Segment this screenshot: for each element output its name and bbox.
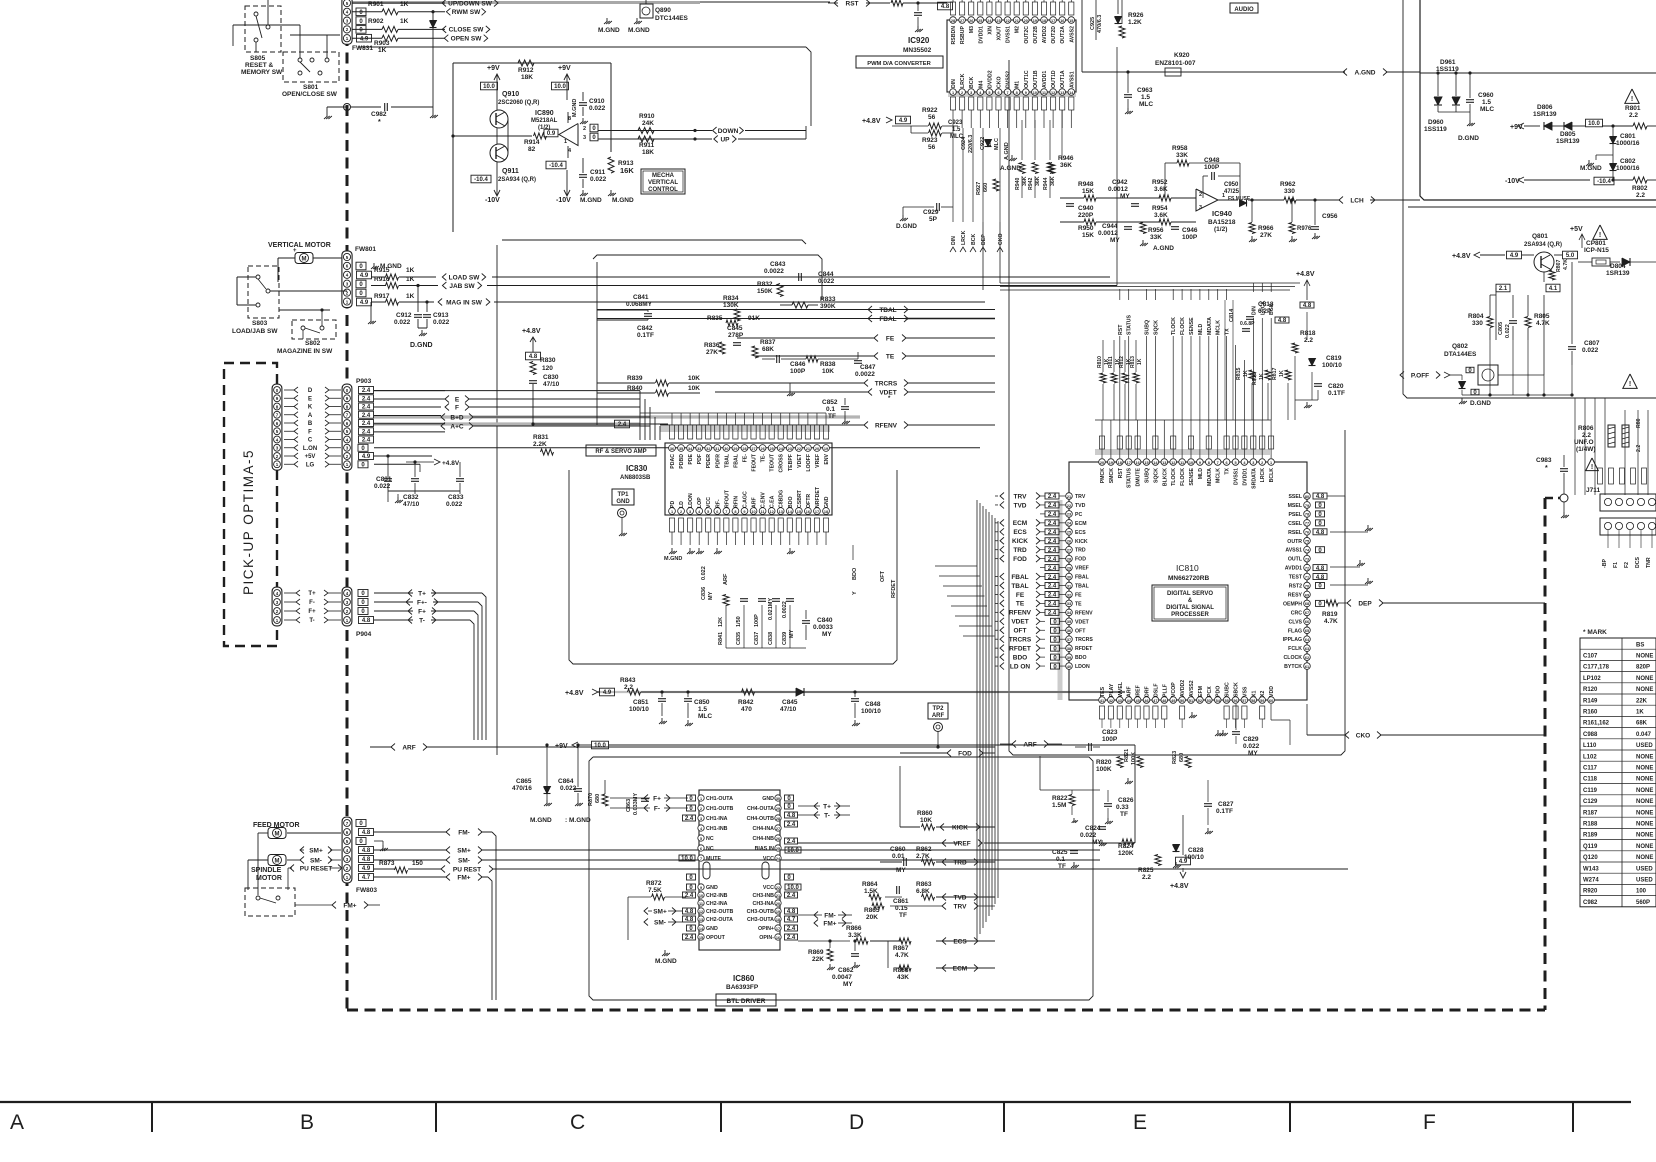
- svg-text:65: 65: [1305, 629, 1309, 633]
- svg-text:4.9: 4.9: [362, 454, 371, 460]
- svg-text:R801: R801: [1625, 105, 1641, 112]
- svg-text:FM+: FM+: [823, 920, 836, 927]
- svg-text:2.4: 2.4: [1048, 611, 1057, 617]
- svg-text:32: 32: [1067, 593, 1071, 597]
- svg-text:4.9: 4.9: [360, 300, 369, 306]
- svg-text:C119: C119: [1583, 788, 1598, 794]
- svg-text:33: 33: [1067, 602, 1071, 606]
- svg-text:C843: C843: [770, 261, 786, 268]
- svg-text:TES: TES: [1100, 686, 1106, 697]
- svg-text:NONE: NONE: [1636, 676, 1653, 682]
- svg-text:CLVS: CLVS: [1289, 619, 1303, 625]
- svg-text:SUBQ: SUBQ: [1145, 320, 1151, 335]
- svg-text:!: !: [1591, 464, 1593, 471]
- svg-text:1.5K: 1.5K: [864, 888, 878, 895]
- wire: [1612, 144, 1614, 163]
- svg-text:52: 52: [1198, 699, 1202, 703]
- wire vdd: [1270, 704, 1272, 720]
- svg-text:STATUS: STATUS: [1127, 314, 1133, 335]
- svg-text:CLOCK: CLOCK: [1284, 655, 1303, 661]
- value box 0: [590, 133, 598, 141]
- svg-text:100/10: 100/10: [861, 708, 881, 715]
- svg-text:28: 28: [951, 19, 955, 23]
- svg-text:1K: 1K: [1243, 370, 1249, 377]
- svg-text:BDO: BDO: [1013, 654, 1027, 661]
- svg-text:C107: C107: [1583, 654, 1598, 660]
- svg-text:CH2-INA: CH2-INA: [706, 901, 728, 907]
- svg-text:6: 6: [700, 847, 702, 851]
- border ruler line: [0, 1101, 1631, 1103]
- svg-text:0.047: 0.047: [1636, 732, 1652, 738]
- svg-text:70: 70: [1305, 584, 1309, 588]
- svg-text:5P: 5P: [929, 216, 938, 223]
- svg-text:R863: R863: [916, 881, 932, 888]
- svg-text:R841: R841: [718, 632, 724, 645]
- value box 10.0: [552, 82, 569, 90]
- svg-text:2.4: 2.4: [362, 438, 371, 444]
- svg-text:DEP: DEP: [981, 234, 987, 245]
- svg-text:ARF: ARF: [752, 497, 758, 508]
- svg-text:7.5K: 7.5K: [648, 887, 662, 894]
- svg-text:13: 13: [699, 918, 703, 922]
- IC860 notch ovals: [703, 862, 710, 879]
- svg-text:22: 22: [776, 886, 780, 890]
- svg-text:R923: R923: [922, 137, 938, 144]
- svg-text:R819: R819: [1322, 611, 1338, 618]
- svg-text:ARF: ARF: [723, 573, 729, 585]
- svg-text:KICK: KICK: [1012, 538, 1028, 545]
- value box 0: [590, 124, 598, 132]
- svg-text:23: 23: [788, 447, 792, 451]
- svg-text:51: 51: [1189, 699, 1193, 703]
- flag FM+ ic860: [814, 920, 818, 927]
- svg-text:4.7: 4.7: [787, 917, 796, 923]
- label BTL DRIVER: [716, 994, 776, 1006]
- wire bus above ic810: [1095, 419, 1271, 421]
- svg-text:NRFDET: NRFDET: [815, 486, 821, 508]
- svg-text:OUT2A: OUT2A: [1060, 26, 1066, 44]
- flag A+C: [441, 423, 445, 430]
- ic IC810 body: [1069, 462, 1307, 700]
- svg-text:FBAL: FBAL: [733, 453, 739, 468]
- svg-text:BTL DRIVER: BTL DRIVER: [727, 998, 766, 1005]
- flag F+: [644, 795, 648, 802]
- svg-text:18K: 18K: [642, 149, 654, 156]
- svg-text:79: 79: [1305, 504, 1309, 508]
- svg-text:PDER: PDER: [706, 454, 712, 469]
- svg-text:RFOUT: RFOUT: [724, 489, 730, 508]
- svg-text:2: 2: [1199, 192, 1202, 198]
- flag P.OFF: [1400, 372, 1404, 379]
- svg-text:LP102: LP102: [1583, 676, 1601, 682]
- svg-text:2.4: 2.4: [787, 935, 796, 941]
- svg-text:AVDD2: AVDD2: [1180, 680, 1186, 697]
- svg-text:GND: GND: [762, 796, 774, 802]
- wire: [352, 28, 382, 30]
- svg-text:47: 47: [1153, 699, 1157, 703]
- flag SM- left: [300, 857, 304, 864]
- svg-text:18: 18: [1042, 19, 1046, 23]
- svg-text:DSLF: DSLF: [1153, 683, 1159, 697]
- svg-text:C818: C818: [1258, 301, 1274, 308]
- flag ECS: [942, 938, 946, 945]
- svg-text:CH2-INB: CH2-INB: [706, 893, 728, 899]
- svg-text:OUT2B: OUT2B: [1033, 26, 1039, 44]
- svg-text:31: 31: [715, 447, 719, 451]
- svg-text:28: 28: [742, 447, 746, 451]
- svg-text:D961: D961: [1440, 59, 1456, 66]
- svg-text:1SR139: 1SR139: [1556, 138, 1580, 145]
- svg-text:470: 470: [741, 706, 752, 713]
- svg-text:OFTR: OFTR: [806, 494, 812, 508]
- wire: [1462, 394, 1572, 396]
- svg-text:IPPLAG: IPPLAG: [1283, 637, 1302, 643]
- svg-text:RF & SERVO AMP: RF & SERVO AMP: [595, 449, 646, 455]
- svg-text:10: 10: [699, 894, 703, 898]
- svg-text:R916: R916: [374, 276, 390, 283]
- svg-text:36K: 36K: [1050, 176, 1056, 186]
- svg-text:12: 12: [770, 510, 774, 514]
- ground M.GND: [636, 18, 638, 21]
- svg-text:X1: X1: [1251, 691, 1257, 697]
- svg-text:TF: TF: [828, 413, 836, 420]
- svg-text:F+: F+: [653, 795, 661, 802]
- IC810 bottom pin row: [1099, 697, 1106, 704]
- section box right edge top: [806, 47, 811, 126]
- flag B+D: [441, 414, 445, 421]
- svg-text:R815: R815: [1236, 367, 1242, 380]
- svg-text:-10V: -10V: [556, 197, 571, 204]
- svg-text:0.01: 0.01: [892, 853, 905, 860]
- svg-text:CH2-OUTB: CH2-OUTB: [706, 909, 734, 915]
- svg-text:21: 21: [1015, 19, 1019, 23]
- svg-text:FOD: FOD: [958, 750, 972, 757]
- label digital servo processor: [1152, 585, 1228, 621]
- svg-text:R834: R834: [723, 295, 739, 302]
- svg-text:1: 1: [671, 510, 673, 514]
- svg-text:C988: C988: [1583, 732, 1598, 738]
- svg-text:0.0022: 0.0022: [782, 601, 788, 618]
- flag A.GND: [1343, 69, 1347, 76]
- svg-text:1SR139: 1SR139: [1606, 270, 1630, 277]
- value box -10.4: [1594, 177, 1614, 185]
- svg-text:P904: P904: [356, 631, 372, 638]
- svg-text:R820: R820: [1096, 759, 1112, 766]
- flag CLOSE SW: [442, 26, 446, 33]
- svg-text:8: 8: [568, 116, 571, 122]
- svg-text:DVSS1: DVSS1: [1006, 26, 1012, 43]
- switch pickup reset: [245, 888, 295, 916]
- svg-text:R840: R840: [627, 385, 643, 392]
- svg-text:D806: D806: [1537, 104, 1553, 111]
- svg-text:VDET: VDET: [797, 453, 803, 468]
- flag RFENV: [864, 422, 868, 429]
- svg-text:10.0: 10.0: [594, 743, 606, 749]
- svg-text:C835: C835: [736, 632, 742, 645]
- svg-text:C845: C845: [727, 325, 743, 332]
- svg-text:C819: C819: [1326, 355, 1342, 362]
- svg-text:R915: R915: [374, 267, 390, 274]
- svg-text:820P: 820P: [1636, 665, 1650, 671]
- svg-text:USED: USED: [1636, 866, 1653, 872]
- ruler tick 2: [435, 1102, 437, 1132]
- svg-text:TRCRS: TRCRS: [1009, 637, 1032, 644]
- svg-text:DEP: DEP: [1358, 600, 1372, 607]
- svg-text:RFDET: RFDET: [1009, 645, 1031, 652]
- svg-text:0.022: 0.022: [590, 176, 607, 183]
- svg-text:C832: C832: [403, 494, 419, 501]
- flag T+ right: [814, 803, 818, 810]
- svg-text:M: M: [275, 831, 280, 837]
- capacitor C852: [841, 406, 849, 408]
- svg-text:C830: C830: [543, 374, 559, 381]
- svg-text:1.5: 1.5: [698, 706, 707, 713]
- warning triangle: [1593, 225, 1607, 239]
- svg-text:PDBD: PDBD: [679, 454, 685, 469]
- wire: [1498, 374, 1544, 376]
- svg-text:R837: R837: [760, 339, 776, 346]
- svg-text:660: 660: [983, 183, 989, 192]
- svg-text:0.1TF: 0.1TF: [637, 332, 654, 339]
- svg-text:CKO: CKO: [998, 233, 1004, 245]
- wire: [278, 257, 295, 259]
- svg-text:TE: TE: [1075, 601, 1082, 607]
- svg-text:BDO: BDO: [788, 496, 794, 508]
- svg-text:1.5: 1.5: [952, 127, 961, 133]
- value boxes vertical j711: [1598, 468, 1603, 484]
- svg-text:1K: 1K: [406, 267, 415, 274]
- board outline dashed bottom: [347, 1009, 1545, 1012]
- value boxes FW803: [356, 820, 366, 827]
- svg-text:R120: R120: [1583, 687, 1598, 693]
- wire A.GND line: [1082, 71, 1345, 73]
- svg-text:PDAC: PDAC: [670, 454, 676, 469]
- svg-text:R804: R804: [1468, 313, 1484, 320]
- svg-text:MY: MY: [843, 981, 853, 988]
- flag SM+ right: [446, 847, 450, 854]
- svg-text:82: 82: [528, 146, 536, 153]
- svg-text:SM-: SM-: [310, 857, 322, 864]
- svg-text:72: 72: [1305, 566, 1309, 570]
- svg-text:R926: R926: [1128, 12, 1144, 19]
- svg-text:R807: R807: [1556, 259, 1562, 272]
- value box -10.4: [546, 161, 566, 169]
- svg-text:C847: C847: [860, 364, 876, 371]
- ground: [789, 390, 791, 393]
- svg-text:4.1: 4.1: [1549, 286, 1558, 292]
- svg-text:C850: C850: [694, 699, 710, 706]
- svg-text:25: 25: [776, 847, 780, 851]
- wire L.ON long: [374, 447, 980, 449]
- svg-text:R80: R80: [1636, 418, 1642, 428]
- svg-text:TE-: TE-: [761, 454, 767, 463]
- svg-text:+5V: +5V: [305, 454, 316, 460]
- svg-text:470/6.3: 470/6.3: [1097, 15, 1103, 33]
- svg-text:4.8: 4.8: [529, 354, 538, 360]
- svg-text:RSBUP: RSBUP: [960, 25, 966, 44]
- svg-text:2.2: 2.2: [1582, 432, 1591, 439]
- section box mecha top: [347, 1, 830, 3]
- svg-text:7: 7: [1217, 461, 1219, 465]
- wire: [1311, 372, 1313, 400]
- svg-text:CONTROL: CONTROL: [648, 187, 678, 193]
- svg-text:0.022: 0.022: [433, 319, 450, 326]
- svg-text:2.4: 2.4: [1048, 575, 1057, 581]
- svg-text:C801: C801: [1620, 133, 1636, 140]
- svg-text:IC920: IC920: [908, 36, 930, 45]
- wire: [726, 647, 806, 649]
- svg-text:25: 25: [1067, 531, 1071, 535]
- capacitor C832: [411, 478, 419, 480]
- svg-text:2.2: 2.2: [1629, 112, 1638, 119]
- connector FW831: [342, 0, 352, 44]
- svg-text:3: 3: [689, 510, 691, 514]
- svg-text:C838: C838: [768, 632, 774, 645]
- svg-text:E: E: [455, 396, 460, 403]
- svg-text:MY: MY: [1110, 237, 1120, 244]
- svg-text:M: M: [302, 256, 307, 262]
- svg-text:40: 40: [1067, 665, 1071, 669]
- svg-text:VCC: VCC: [706, 497, 712, 508]
- svg-text:VDET: VDET: [1011, 619, 1028, 626]
- svg-text:2: 2: [700, 807, 702, 811]
- label AUDIO: [1230, 3, 1258, 13]
- section box ic830 outer: [496, 245, 498, 755]
- svg-text:M4: M4: [978, 81, 984, 88]
- wire: [326, 35, 328, 58]
- svg-text:53: 53: [1207, 699, 1211, 703]
- svg-text:C844: C844: [818, 271, 834, 278]
- svg-text:10: 10: [1189, 461, 1193, 465]
- svg-text:-BP: -BP: [1602, 559, 1608, 568]
- svg-text:R873: R873: [379, 860, 395, 867]
- svg-text:MSEL: MSEL: [1288, 503, 1303, 509]
- svg-text:E: E: [1133, 1111, 1147, 1134]
- svg-text:CKO: CKO: [997, 76, 1003, 88]
- wire: [507, 119, 509, 153]
- svg-text:C840: C840: [817, 617, 833, 624]
- svg-text:OPOUT: OPOUT: [706, 935, 726, 941]
- svg-text:R810: R810: [1097, 356, 1103, 368]
- capacitor C912: [414, 314, 422, 316]
- svg-text:16: 16: [1060, 19, 1064, 23]
- wire: [1081, 0, 1083, 72]
- svg-text:35: 35: [679, 447, 683, 451]
- svg-text:GND: GND: [824, 496, 830, 508]
- svg-text:37: 37: [1067, 638, 1071, 642]
- svg-text:ECM: ECM: [1075, 521, 1087, 527]
- svg-text:41: 41: [1100, 699, 1104, 703]
- ground: [829, 964, 831, 967]
- svg-text:10.0: 10.0: [787, 848, 799, 854]
- svg-text:2.4: 2.4: [1048, 557, 1057, 563]
- svg-text:PC: PC: [1075, 512, 1082, 518]
- svg-text:OUT1B: OUT1B: [1033, 70, 1039, 88]
- ground: [610, 190, 612, 193]
- svg-text:8: 8: [1016, 91, 1018, 95]
- svg-text:3.3K: 3.3K: [848, 932, 862, 939]
- svg-text:TX: TX: [1225, 467, 1231, 474]
- svg-text:30: 30: [724, 447, 728, 451]
- svg-text:VDD: VDD: [1269, 686, 1275, 697]
- flag VREF: [942, 840, 946, 847]
- svg-text:FE: FE: [1016, 592, 1025, 599]
- svg-text:28: 28: [1067, 557, 1071, 561]
- wire: [258, 832, 268, 834]
- svg-text:150K: 150K: [757, 288, 773, 295]
- svg-text:15: 15: [699, 936, 703, 940]
- resistor R911: [638, 136, 654, 142]
- svg-text:11: 11: [699, 902, 703, 906]
- wire bundle corner: [920, 566, 935, 571]
- resistor R910: [638, 128, 654, 134]
- svg-text:-10.4: -10.4: [549, 163, 563, 169]
- svg-text:22K: 22K: [812, 956, 824, 963]
- svg-text:CH4-OUTB: CH4-OUTB: [747, 816, 775, 822]
- ic IC920 body: [947, 20, 1076, 92]
- svg-text:R966: R966: [1258, 225, 1274, 232]
- diode D804: [1622, 258, 1630, 266]
- power box right inner: [1408, 206, 1656, 208]
- IC830 top pins: [669, 445, 676, 452]
- svg-text:48: 48: [1162, 699, 1166, 703]
- svg-text:C950: C950: [1224, 182, 1239, 188]
- switch S803 load/jab: [248, 266, 279, 318]
- ground: [917, 26, 919, 29]
- IC810 top value boxes: [1099, 436, 1104, 449]
- svg-text:19: 19: [776, 910, 780, 914]
- svg-text:R948: R948: [1078, 181, 1094, 188]
- svg-text:17: 17: [1051, 19, 1055, 23]
- svg-text:10: 10: [751, 510, 755, 514]
- svg-text:PSEL: PSEL: [1288, 512, 1302, 518]
- svg-text:ECM: ECM: [953, 965, 967, 972]
- IC860 left value boxes: [687, 795, 696, 801]
- wire: [805, 126, 807, 139]
- value box 4.8: [526, 352, 541, 360]
- grounds below IC830: [671, 548, 673, 551]
- svg-text:IREF: IREF: [1136, 685, 1142, 697]
- flag TBAL: [868, 306, 872, 313]
- wire LCH: [1218, 199, 1238, 201]
- svg-text:M.GND: M.GND: [1580, 165, 1602, 172]
- svg-text:AVSS2: AVSS2: [1189, 680, 1195, 697]
- svg-text:13: 13: [779, 510, 783, 514]
- svg-text:A.GND: A.GND: [1004, 142, 1010, 160]
- svg-text:15: 15: [1069, 19, 1073, 23]
- svg-text:2.4: 2.4: [787, 926, 796, 932]
- svg-text:J711: J711: [1586, 487, 1600, 494]
- svg-text:R942: R942: [1028, 177, 1034, 190]
- svg-text:OEMPH: OEMPH: [1283, 601, 1302, 607]
- ground: [687, 720, 689, 723]
- svg-text:AN8803SB: AN8803SB: [620, 475, 651, 481]
- wire: [352, 11, 382, 13]
- svg-text:56: 56: [928, 114, 936, 121]
- svg-text:IC890: IC890: [535, 110, 554, 117]
- svg-text:12K: 12K: [718, 617, 724, 627]
- resistor R830: [530, 362, 536, 375]
- svg-text:4.9: 4.9: [1179, 859, 1188, 865]
- ground: [373, 263, 375, 266]
- svg-text:C839: C839: [782, 632, 788, 645]
- svg-text:FCLK: FCLK: [1288, 646, 1302, 652]
- svg-text:PCX: PCX: [1207, 686, 1213, 697]
- pin value boxes FW831: [356, 8, 366, 16]
- svg-text:10K: 10K: [920, 817, 932, 824]
- value box 5.0: [1563, 251, 1578, 259]
- svg-text:R838: R838: [820, 361, 836, 368]
